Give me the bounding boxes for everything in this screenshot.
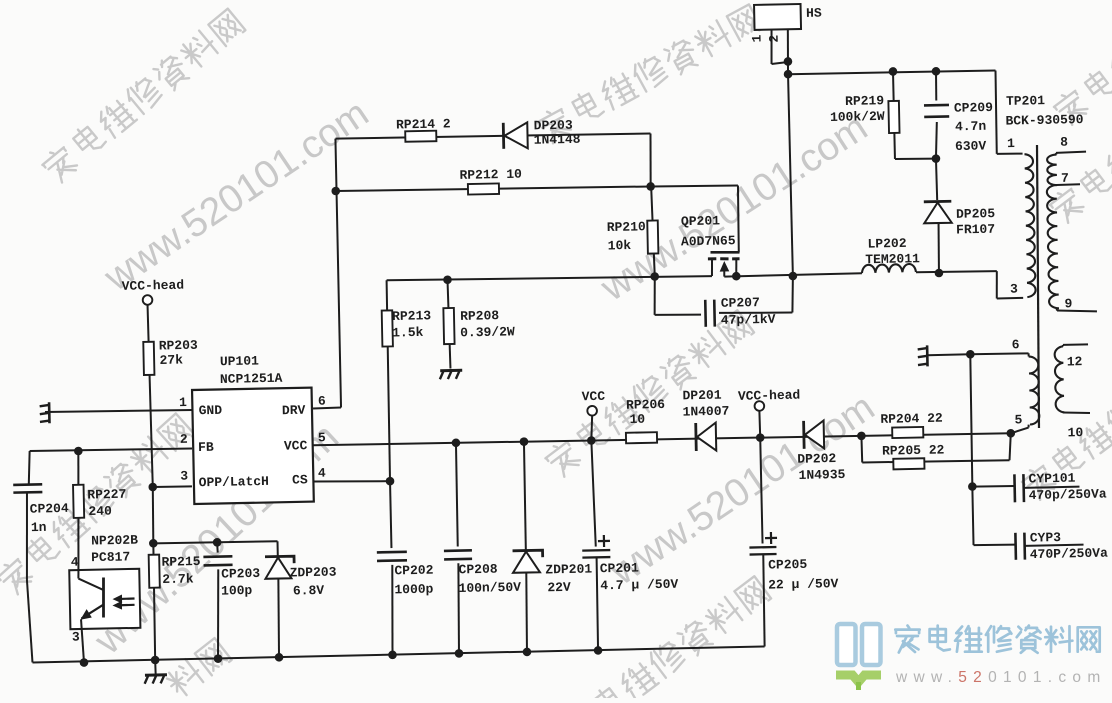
capacitor CYP3	[974, 544, 1016, 545]
svg-text:DRV: DRV	[282, 403, 306, 418]
resistor RP208	[447, 280, 450, 369]
node ZDP201 rail	[520, 437, 529, 446]
svg-text:240: 240	[88, 504, 112, 519]
svg-text:CYP3: CYP3	[1030, 530, 1062, 546]
node RP205 rail	[857, 432, 866, 441]
svg-text:4: 4	[318, 466, 326, 481]
svg-text:1N4007: 1N4007	[682, 404, 729, 420]
svg-text:TEM2011: TEM2011	[865, 251, 920, 267]
watermark band A4	[543, 310, 754, 479]
pin 7 lead	[1057, 183, 1081, 186]
transistor Q1 QP201 gate plate	[710, 252, 739, 253]
IC U1 UP101 NCP1251A	[192, 388, 314, 504]
pin 8 lead	[1055, 153, 1058, 155]
svg-text:DP205: DP205	[956, 206, 995, 222]
svg-text:470p/250Va: 470p/250Va	[1028, 486, 1106, 503]
logo book icon	[836, 624, 881, 690]
svg-text:1n: 1n	[31, 520, 47, 535]
transistor QP201 channel bars	[708, 257, 716, 260]
svg-text:VCC: VCC	[582, 389, 606, 404]
resistor RP210	[651, 186, 655, 276]
svg-text:RP204 22: RP204 22	[880, 411, 943, 427]
svg-text:TP201: TP201	[1006, 93, 1045, 109]
svg-text:0.39/2W: 0.39/2W	[460, 324, 515, 340]
svg-text:4.7n: 4.7n	[955, 119, 987, 135]
wire B+ top rail	[788, 70, 995, 75]
svg-text:CP203: CP203	[221, 566, 260, 582]
svg-text:RP210: RP210	[607, 219, 646, 235]
svg-text:RP227: RP227	[87, 487, 126, 503]
transformer winding 7-9	[1047, 185, 1059, 308]
svg-text:GND: GND	[199, 403, 223, 418]
transistor QP201 source stem	[711, 259, 714, 276]
wire DRV pin to riser	[313, 407, 341, 410]
capacitor CP201 electrolytic	[591, 440, 595, 546]
node OPP junction	[148, 483, 157, 492]
svg-text:10k: 10k	[608, 238, 632, 253]
transistor QP201 body arrow	[719, 261, 729, 272]
node clamp junction	[932, 154, 941, 163]
svg-text:1000p: 1000p	[394, 582, 433, 598]
svg-text:12: 12	[1067, 354, 1083, 369]
svg-text:HS: HS	[806, 6, 822, 21]
watermark band A1	[39, 9, 245, 185]
watermark band A8	[1051, 44, 1112, 127]
svg-text:RP206: RP206	[626, 397, 665, 413]
capacitor CP202	[390, 481, 391, 548]
wire gate-drive top (RP214/DP203 row)	[335, 132, 650, 140]
zener ZDP201	[524, 442, 526, 550]
connector HS	[754, 4, 801, 30]
svg-text:3: 3	[1010, 282, 1018, 297]
optocoupler NP202B PC817	[69, 569, 140, 629]
watermark band A2	[535, 4, 762, 145]
ground at pin 1	[48, 402, 51, 423]
logo site name	[895, 626, 1099, 653]
svg-text:47p/1kV: 47p/1kV	[721, 312, 776, 328]
node gate junction	[646, 182, 655, 191]
wire bottom ground rail	[32, 646, 764, 662]
capacitor CP209	[935, 71, 938, 100]
svg-text:2: 2	[180, 432, 188, 447]
node CP201 bottom	[594, 646, 603, 655]
svg-text:4: 4	[71, 555, 79, 570]
svg-text:10: 10	[1067, 425, 1083, 440]
diode DP202	[802, 421, 805, 449]
wire VCC terminal stem	[591, 416, 593, 441]
svg-text:NCP1251A: NCP1251A	[220, 371, 283, 387]
resistor RP203	[148, 305, 153, 487]
node pin5 rail	[1006, 429, 1015, 438]
node ZDP203 bottom	[275, 653, 284, 662]
svg-text:1.5k: 1.5k	[392, 325, 424, 341]
svg-text:100p: 100p	[221, 583, 253, 599]
svg-text:RP215: RP215	[161, 554, 200, 570]
svg-text:RP219: RP219	[845, 93, 884, 109]
svg-text:100k/2W: 100k/2W	[830, 109, 885, 125]
svg-text:7: 7	[1061, 171, 1069, 186]
resistor RP227	[76, 451, 81, 570]
svg-text:PC817: PC817	[91, 549, 130, 565]
node RP227 top	[74, 447, 83, 456]
wire VCC-head stem	[758, 411, 761, 438]
resistor RP219	[893, 71, 895, 158]
wire gate node to QP201	[651, 185, 738, 188]
capacitor CP207 left leg	[654, 277, 656, 315]
svg-text:CP208: CP208	[458, 562, 497, 578]
node CP202 bottom	[388, 650, 397, 659]
diode DP205	[936, 159, 937, 200]
wire HS to drain vertical	[788, 74, 793, 276]
svg-text:6: 6	[318, 394, 326, 409]
wire DRV riser	[335, 139, 341, 408]
wire to CYP3	[972, 487, 973, 546]
zener ZDP203	[277, 541, 279, 555]
svg-text:A0D7N65: A0D7N65	[681, 233, 736, 249]
node RP215 rail left	[149, 539, 158, 548]
watermark band A7	[1047, 122, 1112, 225]
svg-text:RP205 22: RP205 22	[882, 442, 945, 458]
svg-text:ZDP201: ZDP201	[545, 562, 592, 578]
svg-text:UP101: UP101	[220, 353, 259, 369]
node CP203 bottom	[214, 654, 223, 663]
resistor RP205 branch	[860, 436, 863, 463]
wire RP203 column to RP215 rail	[152, 487, 154, 543]
svg-text:CP209: CP209	[954, 100, 993, 116]
watermark band A3	[0, 413, 194, 597]
node VCC terminal rail	[587, 436, 596, 445]
svg-text:VCC-head: VCC-head	[738, 388, 801, 404]
wire RP215/CP203/ZDP203 rail	[153, 541, 277, 544]
svg-text:1: 1	[179, 395, 187, 410]
node CP208 rail	[452, 438, 461, 447]
svg-text:470P/250Va: 470P/250Va	[1030, 546, 1108, 563]
resistor RP212	[468, 183, 499, 194]
svg-text:2: 2	[767, 34, 782, 42]
node CP209 top	[932, 67, 941, 76]
transformer winding 6-5	[970, 353, 1028, 354]
svg-text:BCK-930590: BCK-930590	[1005, 112, 1083, 129]
svg-text:RP208: RP208	[460, 308, 499, 324]
resistor RP213	[386, 280, 391, 481]
svg-text:8: 8	[1060, 135, 1068, 150]
svg-text:VCC-head: VCC-head	[122, 278, 185, 294]
diode DP203	[502, 123, 505, 149]
wire B+ to transformer pin 1	[995, 71, 997, 154]
wire QP201 gate drop	[737, 186, 739, 253]
svg-text:CP205: CP205	[768, 557, 807, 573]
svg-text:www.520101.com: www.520101.com	[895, 669, 1107, 686]
wire drain to transformer pin 3	[916, 271, 997, 273]
svg-text:2.7k: 2.7k	[162, 571, 194, 587]
svg-text:22 μ /50V: 22 μ /50V	[768, 576, 839, 592]
svg-text:FB: FB	[198, 440, 214, 455]
svg-text:LP202: LP202	[867, 236, 906, 252]
transformer TP201 primary winding 1-3	[1024, 154, 1035, 297]
resistor RP206	[626, 432, 657, 443]
node VCC-head rail	[756, 433, 765, 442]
opto transistor	[103, 578, 105, 618]
svg-text:VCC: VCC	[284, 438, 308, 453]
svg-text:3: 3	[72, 630, 80, 645]
svg-text:CP207: CP207	[721, 295, 760, 311]
watermark band A9	[164, 638, 232, 699]
transformer winding 12-10	[1054, 346, 1064, 412]
svg-text:1: 1	[750, 34, 765, 42]
wire pin5 link	[1011, 428, 1029, 434]
wire CS pin 4	[313, 480, 390, 483]
ground at winding 6	[926, 345, 929, 366]
svg-text:RP212 10: RP212 10	[459, 167, 522, 183]
ground below RP208	[440, 369, 462, 372]
svg-text:DP203: DP203	[534, 118, 573, 134]
pin 9 lead	[1055, 308, 1058, 311]
resistor RP215	[153, 543, 156, 660]
capacitor CYP101	[972, 486, 1014, 487]
capacitor CP208	[456, 443, 458, 547]
node drain-QP201 junction	[732, 272, 741, 281]
svg-text:DP202: DP202	[797, 451, 836, 467]
svg-text:DP201: DP201	[682, 388, 721, 404]
wire GND pin 1	[45, 409, 192, 413]
node RP212-left junction	[331, 187, 340, 196]
node HS-B+ junction	[784, 70, 793, 79]
transformer winding 8-7	[1047, 155, 1057, 186]
svg-text:NP202B: NP202B	[91, 533, 138, 549]
svg-text:1N4935: 1N4935	[798, 467, 845, 483]
resistor RP204	[892, 427, 923, 438]
node opto pin3	[80, 658, 89, 667]
node CS junction	[386, 477, 395, 486]
svg-text:RP213: RP213	[392, 308, 431, 324]
svg-text:3: 3	[180, 468, 188, 483]
svg-text:ZDP203: ZDP203	[289, 565, 336, 581]
node RP219 top	[889, 67, 898, 76]
pin 10 lead	[1063, 412, 1090, 414]
svg-text:27k: 27k	[159, 352, 183, 367]
node DP205 anode	[935, 269, 944, 278]
node winding-6 junction	[966, 350, 975, 359]
resistor RP214	[405, 131, 436, 142]
svg-text:CP204: CP204	[30, 501, 69, 517]
svg-text:RP203: RP203	[159, 338, 198, 354]
svg-text:6: 6	[1012, 337, 1020, 352]
svg-text:10: 10	[629, 412, 645, 427]
wire ground column right	[970, 354, 973, 486]
node CYP101 junction	[968, 482, 977, 491]
svg-text:9: 9	[1064, 296, 1072, 311]
wire RP212 row	[336, 185, 651, 193]
svg-text:CS: CS	[292, 472, 308, 487]
svg-text:CP202: CP202	[394, 563, 433, 579]
watermark band A5	[560, 576, 771, 703]
wire VCC rail pin 5	[313, 431, 1011, 447]
node CP208 bottom	[455, 649, 464, 658]
wire drain node	[724, 273, 862, 276]
svg-text:CYP101: CYP101	[1028, 471, 1075, 487]
capacitor CP207	[704, 300, 707, 327]
capacitor CP205 electrolytic	[760, 438, 762, 544]
node drain-CP207-HS junction	[788, 272, 797, 281]
ground below bottom rail	[154, 660, 156, 674]
wire OPP/Latch pin 3	[153, 485, 192, 488]
wire RP219 bottom to clamp node	[895, 158, 936, 159]
svg-text:FR107: FR107	[956, 222, 995, 238]
wire gate node vertical	[650, 133, 652, 186]
svg-text:RP214 2: RP214 2	[396, 116, 451, 132]
watermark band A6	[1019, 338, 1112, 502]
svg-text:100n/50V: 100n/50V	[458, 580, 521, 596]
pin 12 lead	[1062, 345, 1064, 346]
svg-text:22V: 22V	[547, 580, 571, 595]
inductor LP202	[862, 264, 916, 273]
transistor QP201 drain stem	[735, 259, 738, 276]
svg-text:CP201: CP201	[600, 560, 639, 576]
svg-text:5: 5	[1014, 412, 1022, 427]
node RP215 bottom	[151, 656, 160, 665]
svg-text:630V: 630V	[955, 138, 987, 154]
diode DP201	[694, 423, 697, 451]
node HS pin1 junction	[784, 57, 793, 66]
svg-text:QP201: QP201	[681, 213, 720, 229]
wire FB pin 2	[30, 448, 192, 452]
svg-text:6.8V: 6.8V	[293, 583, 325, 599]
svg-text:5: 5	[318, 430, 326, 445]
svg-text:4.7 μ /50V: 4.7 μ /50V	[600, 577, 678, 594]
wire source node	[387, 274, 712, 283]
opto light arrows	[116, 597, 135, 600]
svg-text:1N4148: 1N4148	[534, 132, 581, 148]
capacitor CP203	[216, 542, 219, 552]
wire ground to winding 6	[927, 353, 970, 356]
transformer core	[1033, 145, 1042, 428]
node RP208 junction	[443, 275, 452, 284]
node RP210-bottom junction	[650, 272, 659, 281]
svg-text:OPP/LatcH: OPP/LatcH	[199, 474, 270, 490]
node CP203 top	[213, 538, 222, 547]
node ZDP201 bottom	[523, 648, 532, 657]
capacitor CP207 right leg	[719, 311, 792, 314]
capacitor CP204	[28, 451, 30, 484]
svg-text:1: 1	[1007, 136, 1015, 151]
